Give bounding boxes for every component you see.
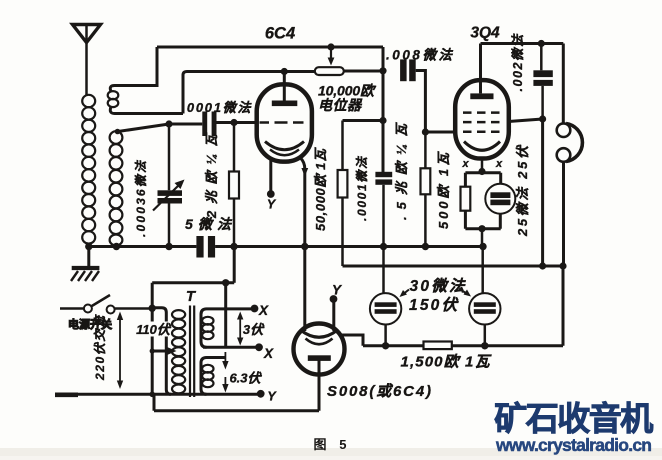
wire 6C4 left filament to Y terminal — [269, 161, 272, 192]
filter cap 30uF #2 — [469, 247, 500, 350]
resistor 2M grid leak — [229, 123, 239, 247]
svg-text:电源开关: 电源开关 — [68, 317, 112, 331]
wire left riser (switch junction down) — [151, 283, 154, 395]
power transformer T primary — [152, 308, 185, 395]
resistor 1500 ohm — [424, 342, 452, 350]
110V tap arrow — [152, 350, 169, 353]
svg-text:.008微法: .008微法 — [386, 48, 454, 63]
svg-text:6C4: 6C4 — [265, 25, 295, 43]
svg-text:500欧 1瓦: 500欧 1瓦 — [436, 151, 451, 229]
wire 3V top lead to X — [226, 307, 254, 310]
svg-text:.5兆欧¼瓦: .5兆欧¼瓦 — [394, 122, 409, 220]
top rail (6C4 plate supply) — [157, 46, 383, 49]
node plate stub — [281, 68, 288, 75]
svg-text:矿石收音机: 矿石收音机 — [494, 400, 653, 437]
wire secondary common riser — [224, 283, 227, 348]
wire grid lead to 6C4 — [217, 121, 259, 124]
wire 3V bottom lead to X — [203, 346, 259, 349]
antenna coil L1 — [82, 95, 95, 244]
B rail from rectifier — [363, 344, 563, 347]
tube 3Q4 output pentode — [455, 80, 509, 158]
transformer core — [190, 306, 194, 398]
resistor 50000 ohm plate load — [338, 121, 348, 267]
filament network of 3Q4: 500ohm + 25uF — [461, 159, 516, 247]
grid dashes — [260, 121, 304, 124]
svg-text:X: X — [258, 303, 269, 318]
transformer 6.3V secondary — [201, 358, 226, 395]
capacitor .008 — [400, 59, 425, 132]
wire phones drop — [562, 44, 565, 125]
svg-text:.0001微法: .0001微法 — [182, 100, 253, 115]
wire 6C4 plate stub — [283, 72, 286, 101]
wire rectifier output — [340, 335, 363, 346]
wire slant to L2b top — [118, 124, 169, 132]
220V dimension arrows — [117, 312, 123, 390]
node grid leak junction — [230, 119, 237, 126]
svg-text:3伏: 3伏 — [243, 322, 265, 337]
tube 6C4 triode — [257, 84, 312, 161]
6.3V dimension arrows — [222, 352, 228, 393]
resistor .5M grid — [421, 132, 431, 247]
potentiometer wiper arrow — [330, 47, 332, 58]
wire pot right lead — [344, 70, 383, 73]
node Y terminal (6.3V) — [257, 390, 265, 398]
rectifier tube 6006 — [294, 324, 345, 375]
svg-text:30微法: 30微法 — [410, 277, 466, 295]
plate bar — [272, 101, 298, 107]
potentiometer 10000 ohm body — [315, 67, 344, 75]
label 110V — [136, 322, 170, 337]
wire 2M-bus riser down to link — [233, 247, 236, 283]
power switch — [60, 295, 152, 314]
node at x383 y70.5 — [379, 67, 386, 74]
transformer 3V secondary — [201, 309, 226, 347]
capacitor 5uF — [196, 236, 215, 258]
capacitor .0001 coupling (lower) — [375, 172, 392, 247]
antenna — [73, 25, 101, 96]
node dots on bus — [85, 243, 92, 250]
node .002 junction — [538, 40, 545, 47]
filament arc — [464, 142, 500, 151]
headphones — [557, 123, 583, 161]
capacitor .002 — [533, 44, 552, 120]
svg-text:110伏: 110伏 — [136, 322, 172, 337]
node: wiper arrow junction — [327, 43, 334, 50]
capacitor 25uF electrolytic — [485, 184, 515, 214]
svg-text:1,500欧 1瓦: 1,500欧 1瓦 — [401, 354, 493, 371]
svg-text:25微法 25伏: 25微法 25伏 — [515, 144, 530, 237]
resistor 500 ohm — [461, 187, 471, 211]
common bus (B-) — [89, 245, 197, 248]
node varcap junction — [165, 120, 172, 127]
mains bottom rail — [70, 393, 260, 396]
svg-text:5微法: 5微法 — [185, 216, 233, 232]
30uF pointer arrows — [402, 290, 409, 296]
wire rectifier bottom return — [154, 360, 319, 411]
wire heater line down to rectifier — [303, 171, 306, 331]
svg-text:电位器: 电位器 — [318, 97, 363, 113]
B+ bus (after dropping resistor) — [343, 265, 564, 268]
ground — [71, 268, 99, 281]
wire Y to rectifier — [332, 299, 335, 331]
node Y terminal (6C4) — [267, 190, 275, 198]
wire phones bottom lead — [562, 161, 565, 266]
3V dimension arrows — [237, 312, 243, 346]
tickler coil L2a (feedback winding) — [108, 91, 119, 107]
bottom gray strip — [0, 448, 662, 456]
svg-text:www.crystalradio.cn: www.crystalradio.cn — [495, 435, 652, 455]
plate bar — [470, 93, 493, 99]
wire to 3Q4 grid — [425, 131, 455, 134]
svg-text:150伏: 150伏 — [409, 296, 459, 314]
wire antenna coil bottom to ground/bus — [87, 244, 90, 266]
svg-text:x: x — [461, 158, 469, 170]
watermark — [494, 400, 653, 455]
cathode arc — [265, 142, 304, 150]
wire 6C4 right filament lead — [300, 158, 305, 170]
variable capacitor .00036 — [153, 124, 185, 247]
wire screen line down — [541, 119, 544, 266]
node L2b top — [115, 129, 121, 135]
svg-text:S008(或6C4): S008(或6C4) — [327, 383, 431, 400]
node — [539, 115, 546, 122]
wire vertical x383 top — [382, 47, 385, 172]
svg-text:50,000欧 1瓦: 50,000欧 1瓦 — [313, 147, 328, 231]
wire L2a top to top rail corner — [110, 47, 157, 92]
wire top link — [152, 281, 234, 284]
svg-text:.0001微法: .0001微法 — [355, 155, 369, 221]
svg-text:x: x — [495, 158, 503, 170]
secondary coil L2b — [110, 131, 123, 245]
svg-text:6.3伏: 6.3伏 — [229, 371, 262, 386]
capacitor .0001 grid — [202, 112, 216, 137]
common bus continues — [215, 245, 483, 248]
wire riser to plate line — [183, 72, 315, 114]
node Y terminal (rectifier) — [330, 295, 338, 303]
wire L2a bottom to vertical riser — [110, 107, 183, 114]
node — [379, 117, 386, 124]
svg-text:3Q4: 3Q4 — [470, 25, 500, 42]
wire 50000 top to x383 — [343, 119, 384, 122]
wire screen tap — [509, 119, 543, 122]
wire cap left lead — [169, 123, 202, 126]
svg-text:X: X — [263, 346, 274, 361]
node .5M / grid junction — [422, 128, 429, 135]
wire 3Q4 plate to top — [481, 44, 564, 94]
wire B+ bus right corner down — [562, 266, 565, 346]
filter cap 30uF #1 — [370, 247, 401, 350]
grid dashes x3 rows — [463, 111, 500, 114]
